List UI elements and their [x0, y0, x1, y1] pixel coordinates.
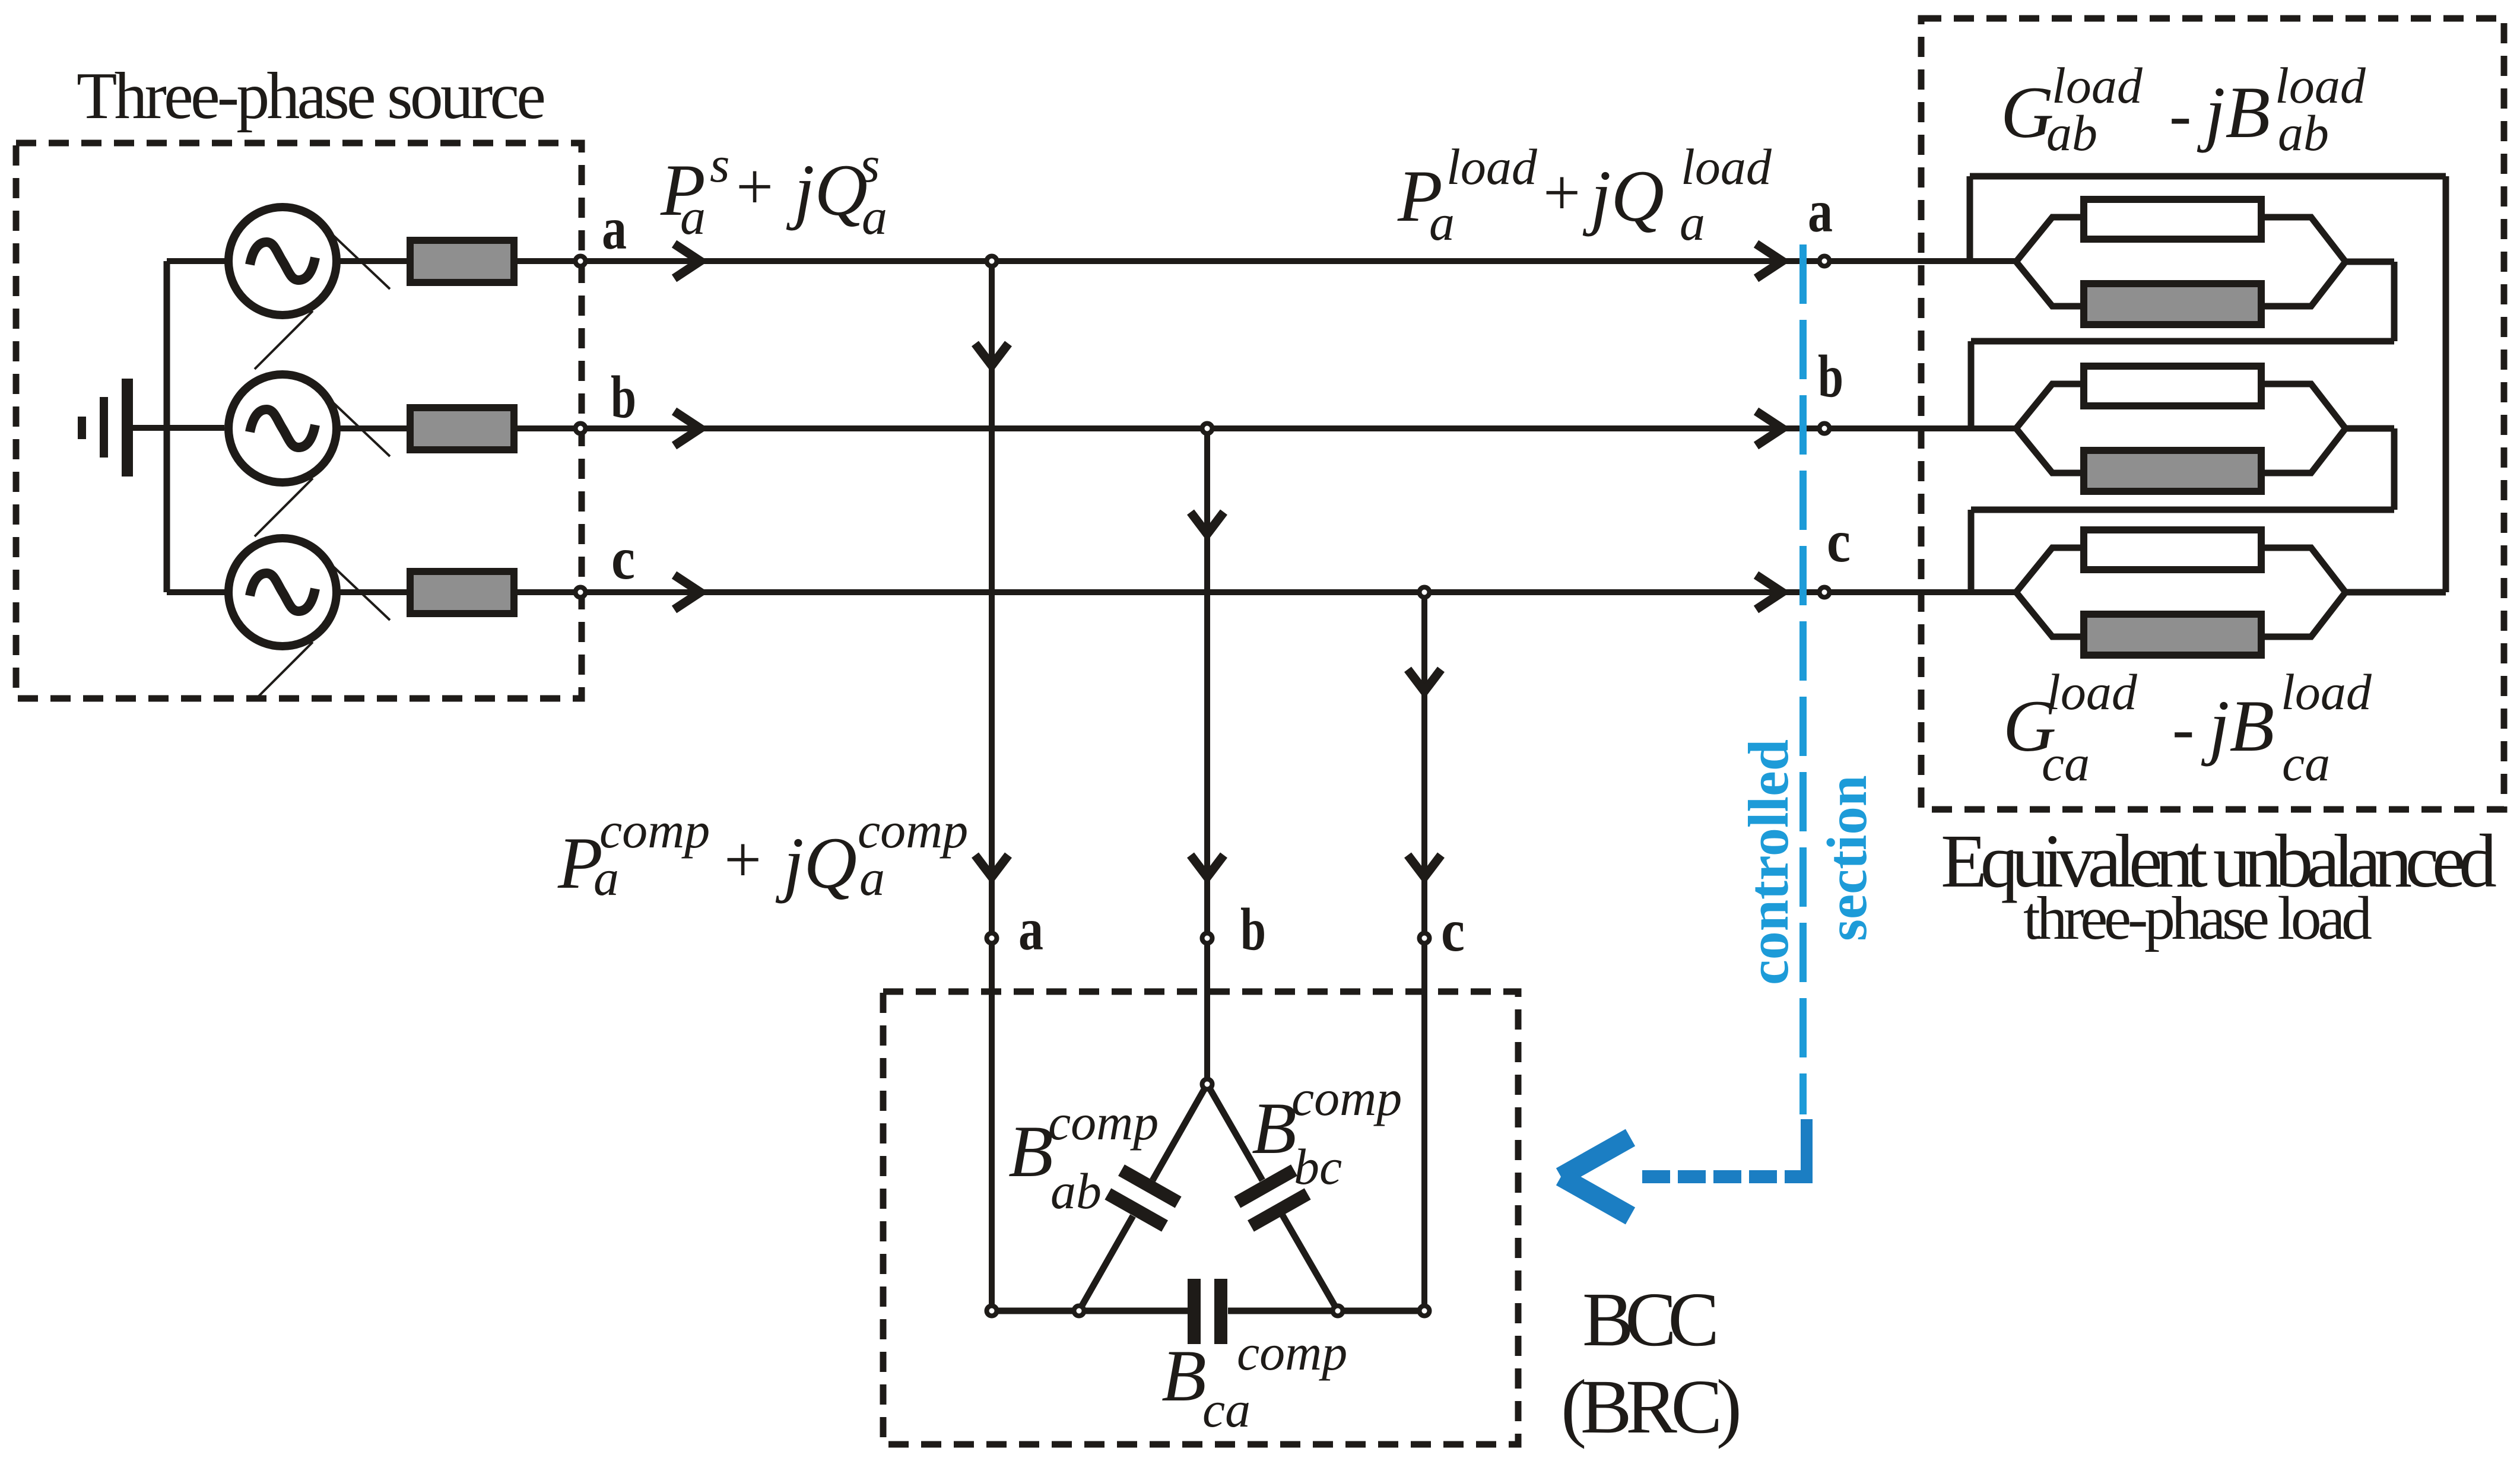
svg-text:B: B [1008, 1111, 1053, 1192]
svg-text:BCC: BCC [1582, 1277, 1719, 1362]
svg-text:a: a [1808, 178, 1833, 245]
svg-text:three-phase load: three-phase load [2023, 884, 2372, 952]
svg-text:b: b [1818, 343, 1843, 410]
svg-text:a: a [862, 188, 887, 245]
svg-text:comp: comp [599, 802, 710, 859]
svg-text:section: section [1816, 775, 1878, 941]
svg-text:c: c [1441, 897, 1465, 964]
svg-text:load: load [2281, 663, 2372, 720]
svg-text:load: load [2052, 57, 2143, 114]
svg-text:jB: jB [2197, 72, 2270, 153]
svg-text:-: - [2172, 692, 2194, 765]
svg-text:b: b [1240, 896, 1266, 963]
svg-text:jQ: jQ [775, 822, 857, 904]
svg-text:ca: ca [1202, 1381, 1251, 1438]
svg-text:B: B [1252, 1088, 1297, 1169]
svg-text:controlled: controlled [1737, 739, 1800, 985]
svg-text:c: c [611, 525, 635, 592]
svg-text:jQ: jQ [1582, 155, 1664, 237]
svg-text:ca: ca [2282, 735, 2330, 792]
svg-text:comp: comp [1048, 1094, 1159, 1151]
svg-text:load: load [1681, 138, 1772, 195]
svg-text:jB: jB [2201, 685, 2274, 767]
svg-text:b: b [611, 364, 636, 431]
svg-text:load: load [1446, 138, 1538, 195]
svg-text:ab: ab [1050, 1162, 1102, 1219]
svg-text:comp: comp [858, 802, 968, 859]
svg-text:c: c [1827, 508, 1851, 575]
svg-text:+: + [1543, 156, 1580, 230]
svg-text:a: a [602, 195, 627, 262]
svg-text:a: a [1018, 896, 1043, 963]
svg-text:load: load [2046, 663, 2138, 720]
svg-text:Three-phase source: Three-phase source [77, 59, 546, 133]
svg-text:s: s [710, 136, 729, 193]
svg-text:a: a [1680, 194, 1705, 251]
svg-text:load: load [2275, 57, 2366, 114]
svg-text:jQ: jQ [786, 150, 868, 231]
svg-text:comp: comp [1291, 1069, 1402, 1126]
svg-text:bc: bc [1294, 1138, 1342, 1195]
svg-text:-: - [2169, 78, 2191, 152]
svg-text:a: a [680, 188, 706, 245]
svg-text:a: a [1429, 194, 1455, 251]
svg-text:+: + [724, 823, 761, 897]
svg-text:comp: comp [1237, 1324, 1347, 1381]
svg-text:+: + [736, 150, 773, 224]
svg-text:s: s [860, 136, 880, 193]
svg-text:B: B [1161, 1335, 1207, 1416]
svg-text:(BRC): (BRC) [1561, 1364, 1742, 1450]
svg-text:ca: ca [2042, 735, 2090, 792]
